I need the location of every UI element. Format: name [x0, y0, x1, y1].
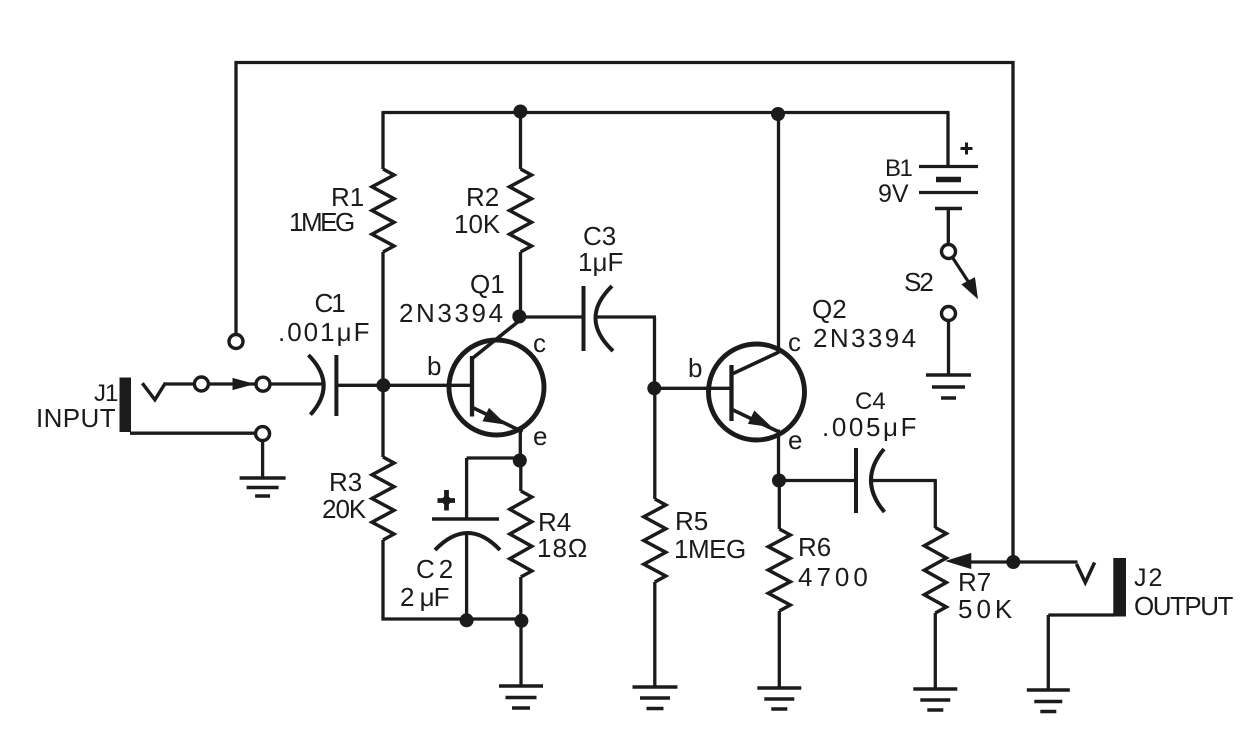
svg-text:10K: 10K: [454, 209, 501, 239]
svg-text:.005μF: .005μF: [822, 412, 919, 442]
svg-text:2N3394: 2N3394: [399, 298, 506, 328]
svg-text:e: e: [533, 421, 547, 451]
svg-text:1MEG: 1MEG: [674, 534, 746, 564]
svg-text:1μF: 1μF: [578, 247, 623, 277]
svg-text:R7: R7: [958, 567, 991, 597]
svg-text:Q1: Q1: [470, 269, 505, 299]
svg-text:OUTPUT: OUTPUT: [1134, 591, 1234, 621]
svg-text:c: c: [788, 327, 801, 357]
svg-text:B1: B1: [885, 155, 913, 182]
svg-text:C4: C4: [855, 388, 886, 415]
svg-text:R3: R3: [329, 467, 362, 497]
svg-text:20K: 20K: [322, 494, 367, 524]
svg-text:R2: R2: [466, 182, 499, 212]
svg-text:50K: 50K: [958, 594, 1016, 624]
svg-text:J2: J2: [1134, 564, 1164, 592]
svg-text:S2: S2: [904, 267, 933, 297]
svg-text:C2: C2: [416, 554, 457, 584]
svg-text:R6: R6: [798, 532, 831, 562]
svg-text:2 μF: 2 μF: [400, 582, 449, 612]
svg-text:4700: 4700: [798, 562, 872, 592]
svg-text:Q2: Q2: [812, 294, 847, 324]
svg-text:18Ω: 18Ω: [537, 533, 588, 563]
svg-text:R5: R5: [675, 506, 708, 536]
svg-text:b: b: [688, 353, 702, 383]
svg-text:2N3394: 2N3394: [813, 323, 918, 353]
svg-text:c: c: [533, 328, 546, 358]
svg-text:9V: 9V: [878, 180, 909, 208]
svg-text:C1: C1: [315, 288, 346, 318]
svg-text:b: b: [427, 351, 441, 381]
svg-text:1MEG: 1MEG: [289, 207, 354, 237]
svg-text:.001μF: .001μF: [278, 317, 371, 347]
svg-text:e: e: [788, 425, 802, 455]
svg-text:INPUT: INPUT: [36, 403, 116, 433]
